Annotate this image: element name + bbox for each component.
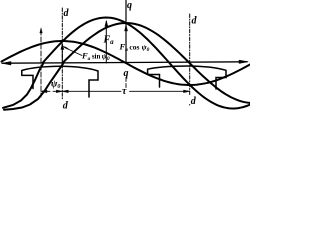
psi0 dim left arrowhead <box>41 90 47 93</box>
baseline right arrowhead <box>239 60 248 63</box>
curve Fa negative lobe lower-left <box>3 63 44 108</box>
baseline (abscissa axis) <box>2 62 247 63</box>
svg-text:τ: τ <box>122 86 127 97</box>
Fa-wave zero line top arrowhead <box>40 28 42 33</box>
Fa-wave zero reference line <box>40 30 42 97</box>
curve Fa (armature mmf wave) <box>43 18 251 109</box>
vector arrow Fa at x=105.5 <box>105 22 107 64</box>
tau dimension line <box>62 90 189 92</box>
psi0 dim right arrowhead <box>56 90 62 93</box>
svg-text:Fa sin ψ0: Fa sin ψ0 <box>81 51 110 63</box>
svg-text:Fa cos ψ0: Fa cos ψ0 <box>119 42 150 54</box>
tau dim right arrowhead <box>184 90 190 93</box>
svg-text:q: q <box>124 68 129 79</box>
curve Fa-cos-psi0 (quadrature-axis wave) <box>63 23 251 103</box>
q-axis lower dashed extension <box>125 78 127 89</box>
psi0 dimension line <box>41 90 62 92</box>
vector arrow Fa-sin-psi0 on d axis <box>61 45 63 64</box>
curve Fa-cos-psi0 negative lobe lower-left <box>4 63 64 110</box>
label leader line for Fa-sin-psi0 <box>65 48 83 56</box>
d-axis right (dash-dot vertical) <box>189 14 191 105</box>
pole shoe left <box>22 66 98 97</box>
svg-text:q: q <box>127 0 132 11</box>
psi0 angle arc <box>62 47 68 50</box>
tau dim left arrowhead <box>62 90 68 93</box>
curve Fa-sin-psi0 (direct-axis wave) <box>2 41 251 85</box>
baseline left arrowhead <box>2 62 11 65</box>
vector arrow Fa-cos-psi0 on q axis <box>125 27 127 64</box>
q-axis (vertical) <box>125 0 127 63</box>
d-axis left (dash-dot vertical) <box>61 8 63 99</box>
pole shoe right <box>148 66 226 89</box>
